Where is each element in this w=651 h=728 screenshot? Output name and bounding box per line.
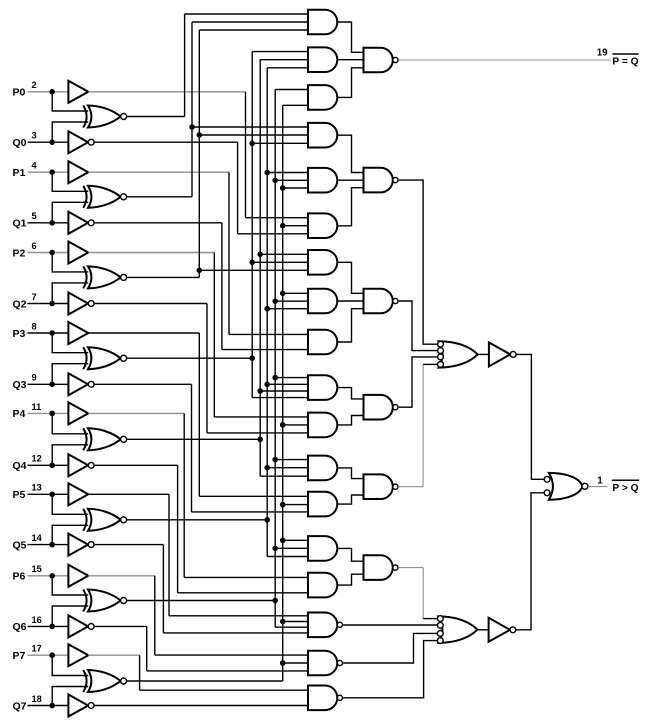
wire [264, 306, 308, 312]
wire [168, 494, 170, 616]
wire [52, 202, 88, 223]
wire [280, 422, 308, 428]
wire [88, 493, 169, 495]
node Q3 label [13, 373, 37, 391]
wire [52, 283, 88, 304]
wire [399, 180, 438, 344]
svg-text:P0: P0 [13, 87, 26, 99]
buffer P4 [68, 402, 88, 424]
node P1 [49, 169, 55, 175]
nand gate U2 [364, 168, 399, 193]
nand gate U3 [364, 289, 399, 314]
nand gate N17 [308, 651, 343, 676]
inverter Q4 [68, 454, 94, 476]
wire [52, 655, 88, 675]
wire [28, 654, 69, 656]
wire [127, 357, 253, 359]
wire [272, 298, 308, 304]
wire [88, 575, 155, 577]
wire [169, 615, 308, 617]
wire [272, 457, 308, 463]
inverter Q1 [68, 212, 94, 234]
node P6 label [13, 564, 42, 582]
wire [337, 68, 363, 98]
wire [52, 445, 88, 466]
wire [52, 494, 88, 514]
node Q4 label [13, 454, 42, 472]
wire [52, 576, 88, 595]
svg-text:13: 13 [32, 483, 42, 493]
xnor gate X6 [83, 590, 126, 612]
inverter Q3 [68, 373, 94, 395]
wire [94, 383, 191, 385]
wire [257, 252, 308, 258]
xnor gate X7 [83, 670, 126, 692]
svg-text:3: 3 [32, 131, 37, 141]
wire [398, 486, 423, 488]
wire [478, 353, 489, 355]
wire [280, 660, 308, 666]
node P4 [49, 411, 55, 417]
wire [198, 333, 200, 496]
node Q5 [49, 542, 55, 548]
buffer P3 [68, 322, 88, 344]
node P3 [49, 330, 55, 336]
wire [337, 300, 363, 302]
wire [337, 22, 363, 52]
wire [337, 468, 363, 479]
wire [399, 357, 438, 407]
svg-text:4: 4 [32, 161, 38, 171]
svg-text:P1: P1 [13, 167, 26, 179]
inverter Q5 [68, 534, 94, 556]
wire [516, 493, 544, 630]
node [257, 437, 263, 443]
wire [184, 576, 308, 578]
wire [127, 116, 185, 118]
and gate A15 [308, 573, 337, 598]
wire [52, 92, 88, 111]
svg-text:Q5: Q5 [13, 539, 27, 551]
node Q5 label [13, 533, 43, 551]
node [272, 598, 278, 604]
svg-text:14: 14 [32, 533, 43, 543]
wire [343, 633, 437, 663]
wire [337, 59, 363, 61]
wire [94, 705, 308, 707]
wire [337, 416, 363, 425]
node P2 label [13, 241, 37, 259]
wire [192, 22, 308, 197]
wire [337, 179, 363, 181]
and gate A11 [308, 413, 337, 438]
wire [52, 687, 88, 706]
wire [337, 262, 363, 293]
and gate A3 [308, 85, 337, 110]
wire [343, 624, 437, 626]
wire [52, 364, 88, 385]
wire [183, 413, 185, 577]
wire [197, 268, 309, 274]
wire [214, 416, 308, 418]
svg-text:Q6: Q6 [13, 621, 27, 633]
wire [28, 171, 69, 173]
wire [245, 92, 247, 218]
nand gate N16 [308, 613, 343, 638]
wire [222, 349, 308, 351]
node P7 [49, 652, 55, 658]
and gate A4 [308, 123, 337, 148]
svg-text:P6: P6 [13, 571, 26, 583]
node P>Q label [612, 483, 638, 494]
wire [343, 641, 437, 698]
wire [28, 222, 69, 224]
and gate A10 [308, 375, 337, 400]
wire [423, 363, 438, 365]
node Q0 [49, 139, 55, 145]
svg-text:P = Q: P = Q [612, 56, 638, 67]
wire [127, 600, 276, 602]
node P0 [49, 89, 55, 95]
wire [423, 618, 437, 620]
inverter G2 [489, 342, 516, 366]
node pin 1 label [597, 476, 603, 487]
node P5 label [13, 483, 42, 501]
wire [28, 493, 69, 495]
node Q2 label [13, 292, 37, 310]
wire [249, 141, 308, 147]
svg-text:15: 15 [32, 564, 42, 574]
wire [337, 188, 363, 226]
wire [249, 260, 308, 266]
node Q6 label [13, 615, 42, 633]
wire [88, 654, 139, 656]
wire [280, 223, 308, 229]
svg-text:5: 5 [32, 211, 37, 221]
wire [237, 142, 239, 234]
wire [94, 303, 207, 305]
svg-text:Q0: Q0 [13, 137, 27, 149]
svg-text:Q4: Q4 [13, 460, 27, 472]
nand gate N18 [308, 686, 343, 711]
wire [399, 301, 438, 351]
svg-text:9: 9 [32, 373, 37, 383]
wire [192, 511, 309, 513]
wire [147, 670, 308, 672]
wire [28, 464, 69, 466]
wire [28, 544, 69, 546]
wire [88, 252, 214, 254]
wire [52, 333, 88, 353]
svg-text:17: 17 [32, 644, 42, 654]
svg-text:19: 19 [597, 48, 608, 59]
node P4 label [13, 402, 42, 420]
inverter G4 [489, 618, 516, 642]
svg-text:16: 16 [32, 615, 42, 625]
wire [257, 388, 308, 394]
wire [88, 332, 199, 334]
inverter Q0 [68, 131, 94, 153]
wire [337, 574, 363, 585]
nor gate G5 [544, 473, 588, 500]
svg-text:2: 2 [32, 80, 37, 90]
and gate A6 [308, 213, 337, 238]
wire [337, 388, 363, 399]
wire [264, 170, 308, 176]
node Q4 [49, 463, 55, 469]
wire [206, 304, 208, 433]
node Q3 [49, 382, 55, 388]
wire [280, 185, 308, 191]
node Q6 [49, 624, 55, 630]
wire [422, 568, 424, 619]
xnor gate X4 [83, 428, 126, 450]
and gate A13 [308, 492, 337, 517]
svg-text:P3: P3 [13, 328, 26, 340]
wire [88, 412, 184, 414]
wire [191, 384, 193, 512]
svg-text:Q7: Q7 [13, 700, 27, 712]
nand gate U5 [364, 474, 399, 499]
wire [337, 495, 363, 504]
wire [127, 438, 261, 440]
node Q1 [49, 220, 55, 226]
buffer P5 [68, 483, 88, 505]
svg-text:18: 18 [32, 694, 42, 704]
svg-text:P > Q: P > Q [612, 483, 638, 494]
wire [178, 592, 308, 594]
wire [155, 654, 308, 656]
wire [199, 495, 308, 497]
wire [337, 135, 363, 172]
wire [252, 52, 308, 398]
wire [477, 629, 488, 631]
node P0 label [13, 80, 37, 98]
node P1 label [13, 161, 38, 179]
node [249, 355, 255, 361]
wire [264, 465, 308, 471]
buffer P0 [68, 81, 88, 103]
node P5 [49, 492, 55, 498]
wire [280, 538, 308, 544]
wire [189, 124, 308, 130]
and gate A14 [308, 536, 337, 561]
xnor gate X3 [83, 347, 126, 369]
svg-text:12: 12 [32, 454, 42, 464]
wire [337, 309, 363, 342]
node pin 19 label [597, 48, 608, 59]
svg-text:7: 7 [32, 292, 37, 302]
wire [28, 141, 69, 143]
and gate A7 [308, 250, 337, 275]
wire [28, 383, 69, 385]
wire [516, 354, 544, 479]
wire [52, 172, 88, 191]
nand gate U4 [364, 395, 399, 420]
buffer P1 [68, 161, 88, 183]
svg-text:P7: P7 [13, 650, 26, 662]
node Q7 [49, 703, 55, 709]
wire [280, 502, 308, 508]
wire [207, 432, 308, 434]
wire [28, 91, 69, 93]
svg-text:P2: P2 [13, 247, 26, 259]
wire [52, 606, 88, 626]
and gate A5 [308, 168, 337, 193]
wire [264, 382, 308, 388]
wire [163, 632, 308, 634]
node P>Q overline [612, 479, 639, 481]
wire [28, 705, 69, 707]
node P2 [49, 250, 55, 256]
xnor gate X1 [83, 186, 126, 208]
wire [52, 253, 88, 272]
wire [28, 625, 69, 627]
wire [140, 689, 308, 691]
wire [272, 375, 308, 381]
wire [127, 276, 200, 278]
wire [422, 364, 424, 486]
wire [28, 303, 69, 305]
wire [267, 68, 308, 557]
wire P>Q net [588, 486, 608, 488]
node P6 [49, 573, 55, 579]
node P=Q label [612, 56, 638, 67]
wire [221, 223, 223, 350]
node Q7 label [13, 694, 42, 712]
wire [139, 655, 141, 690]
wire [28, 332, 69, 334]
wire [199, 30, 308, 277]
buffer P7 [68, 644, 88, 666]
wire [94, 464, 177, 466]
wire [280, 291, 308, 297]
node Q0 label [13, 131, 37, 149]
svg-text:Q1: Q1 [13, 218, 27, 230]
svg-text:1: 1 [597, 476, 603, 487]
wire [52, 413, 88, 433]
wire [127, 519, 268, 521]
node P7 label [13, 644, 42, 662]
wire [28, 252, 69, 254]
inverter Q6 [68, 615, 94, 637]
wire [228, 172, 230, 334]
wire [94, 625, 147, 627]
node Q1 label [13, 211, 37, 229]
wire [162, 545, 164, 633]
wire [94, 544, 163, 546]
wire [52, 122, 88, 142]
wire [88, 91, 245, 93]
wire [52, 525, 88, 544]
or gate G3 [437, 616, 477, 644]
wire [238, 233, 308, 235]
nand gate U6 [364, 555, 399, 580]
wire [94, 141, 237, 143]
svg-text:P4: P4 [13, 408, 26, 420]
svg-text:6: 6 [32, 241, 37, 251]
node P=Q overline [612, 53, 638, 55]
wire [275, 90, 308, 628]
wire [337, 548, 363, 561]
inverter Q7 [68, 695, 94, 717]
xnor gate X2 [83, 266, 126, 288]
buffer P2 [68, 242, 88, 264]
node Q2 [49, 301, 55, 307]
or gate G1 [438, 341, 478, 367]
wire [177, 465, 179, 593]
wire [246, 217, 309, 219]
wire [88, 171, 229, 173]
svg-text:11: 11 [32, 402, 42, 412]
wire [127, 680, 283, 682]
node [264, 517, 270, 523]
wire [398, 567, 423, 569]
wire [94, 222, 222, 224]
xnor gate X5 [83, 509, 126, 531]
wire [229, 333, 308, 335]
buffer P6 [68, 565, 88, 587]
svg-text:8: 8 [32, 321, 37, 331]
wire [283, 105, 308, 681]
svg-text:Q3: Q3 [13, 379, 27, 391]
node P3 label [13, 321, 37, 339]
wire [185, 14, 308, 117]
and gate A12 [308, 456, 337, 481]
and gate A8 [308, 289, 337, 314]
wire [197, 132, 309, 138]
wire [154, 576, 156, 655]
wire [28, 412, 69, 414]
wire [146, 626, 148, 671]
wire [213, 253, 215, 417]
svg-text:Q2: Q2 [13, 298, 27, 310]
wire [127, 196, 192, 198]
and gate A1 [308, 10, 337, 35]
nand gate U1 [364, 48, 399, 73]
svg-text:P5: P5 [13, 489, 26, 501]
wire [280, 619, 308, 625]
wire P=Q net [399, 59, 611, 61]
and gate A2 [308, 47, 337, 72]
wire [28, 575, 69, 577]
xnor gate X0 [83, 106, 126, 128]
and gate A9 [308, 330, 337, 355]
wire [272, 178, 308, 184]
inverter Q2 [68, 293, 94, 315]
wire [272, 546, 308, 552]
wire [260, 60, 308, 477]
